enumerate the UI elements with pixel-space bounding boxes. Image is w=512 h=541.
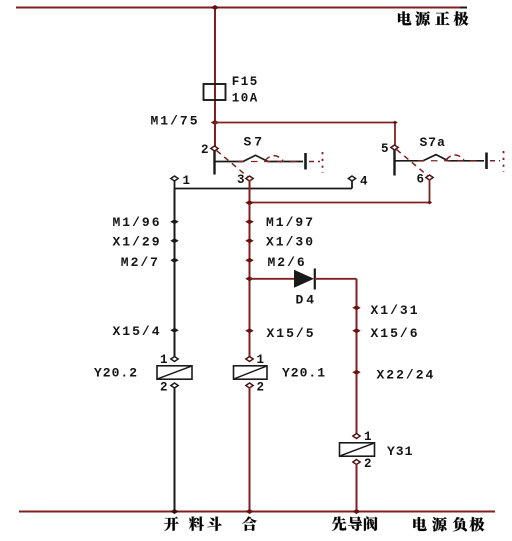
Y20.1 pin 2 (246, 383, 253, 388)
svg-text:4: 4 (360, 174, 368, 188)
node: black wire joins negative bus (170, 509, 178, 514)
pin 2 terminal (211, 146, 218, 151)
svg-text:2: 2 (257, 380, 265, 394)
svg-text:1: 1 (183, 174, 191, 188)
svg-text:D4: D4 (296, 293, 318, 308)
wire: S7 pin3 down (249, 180, 251, 359)
S7 dashed arc (265, 156, 283, 161)
pin 3 terminal (246, 176, 253, 181)
pin 6 terminal (426, 175, 433, 180)
svg-text:X15/6: X15/6 (371, 326, 420, 341)
wire: junction to diode D4 (250, 278, 295, 280)
wire: positive supply bus 电源正极 (16, 7, 461, 9)
wire: diode cathode to right branch (315, 278, 357, 280)
S7 right contact bar (304, 153, 307, 170)
wire: M1/75 junction down to S7 pin 2 (214, 122, 216, 146)
svg-text:Y20.2: Y20.2 (94, 366, 138, 381)
svg-text:X1/29: X1/29 (112, 235, 161, 250)
svg-text:M1/75: M1/75 (150, 114, 199, 129)
wire: black link line pin1 to pin4 (174, 180, 176, 189)
S7a dashed diagonal pin5->pin6 (397, 150, 428, 176)
svg-text:F15: F15 (232, 75, 259, 89)
switch S7a (381, 135, 504, 187)
S7 dashes to mechanical link (309, 161, 320, 163)
relay coil Y20.1 (234, 353, 327, 394)
pin 4 terminal (348, 176, 355, 181)
Y20.2 pin 1 (171, 357, 178, 362)
svg-text:M1/96: M1/96 (112, 215, 161, 230)
svg-text:10A: 10A (232, 92, 259, 106)
Y20.1 pin 1 (246, 357, 253, 362)
relay coil Y20.2 (94, 353, 192, 394)
wire: Y20.1 pin2 to negative bus (249, 387, 251, 511)
Y31 pin 1 (353, 434, 360, 439)
svg-text:M2/6: M2/6 (268, 255, 307, 270)
wire: negative supply bus 电源负极 (19, 511, 495, 513)
wire: cross link from S7a pin6 (429, 179, 431, 203)
diode D4 (294, 270, 314, 288)
S7a dashed arc (446, 155, 464, 160)
svg-text:1: 1 (160, 353, 168, 367)
svg-text:M2/7: M2/7 (121, 255, 160, 270)
label 电源正极 (positive supply) (398, 11, 468, 26)
caption 开 料 斗 合 (open / hopper / close) (164, 516, 256, 530)
svg-text:5: 5 (381, 142, 389, 156)
caption 先导阀 (pilot valve) (332, 516, 378, 531)
node: middle wire joins negative bus (245, 509, 253, 514)
relay coil Y31 (340, 430, 414, 471)
node: right wire joins negative bus (352, 509, 360, 514)
S7 left contact bar (213, 151, 215, 175)
pin 5 terminal (391, 145, 398, 150)
svg-text:Y31: Y31 (387, 444, 413, 459)
S7 dashed diagonal pin2->pin3 (217, 151, 248, 177)
S7a left contact bar (393, 150, 395, 176)
svg-text:6: 6 (416, 173, 424, 187)
svg-text:2: 2 (201, 143, 209, 157)
Y31 pin 2 (353, 460, 360, 465)
S7a wiper line with detent bump (395, 155, 485, 161)
switch S7 (201, 135, 323, 188)
S7a right contact bar (485, 153, 488, 170)
wire: M1/75 junction to S7a pin 5 (215, 122, 395, 124)
svg-text:X15/4: X15/4 (112, 324, 161, 339)
fuse F15 10A (214, 84, 216, 122)
wire: Y31 pin2 to negative bus (356, 464, 358, 512)
S7a mechanical link dotted line (503, 151, 505, 172)
S7a dashes to mechanical link (490, 160, 500, 162)
node: junction on positive bus (211, 5, 219, 10)
wire: left branch pin1 down to Y20.2 (174, 189, 176, 360)
svg-text:3: 3 (237, 173, 245, 187)
svg-text:X1/30: X1/30 (266, 235, 315, 250)
svg-text:2: 2 (364, 457, 372, 471)
svg-text:Y20.1: Y20.1 (282, 366, 326, 381)
svg-text:S7: S7 (244, 135, 266, 150)
svg-text:M1/97: M1/97 (266, 215, 315, 230)
S7 wiper line with detent bump (215, 155, 304, 161)
wire: main feed from positive bus to F15 (214, 7, 216, 84)
svg-text:X22/24: X22/24 (377, 367, 436, 382)
S7 dashed actuation overlay (238, 161, 301, 163)
Y20.2 pin 2 (171, 383, 178, 388)
label 电源负极 (negative supply) (413, 517, 484, 532)
svg-text:X15/5: X15/5 (267, 326, 316, 341)
svg-text:S7a: S7a (420, 135, 446, 150)
svg-text:1: 1 (364, 430, 372, 444)
wire: Y20.2 pin2 to negative bus (174, 387, 176, 511)
node: junction to diode branch (245, 276, 253, 281)
pin 1 terminal (171, 176, 178, 181)
svg-text:2: 2 (160, 380, 168, 394)
svg-text:1: 1 (257, 353, 265, 367)
node: junction pin3 wire with pin6 link (245, 200, 253, 205)
svg-text:X1/31: X1/31 (371, 303, 420, 318)
S7 mechanical link dotted line (322, 152, 324, 173)
S7a dashed actuation overlay (418, 160, 482, 162)
